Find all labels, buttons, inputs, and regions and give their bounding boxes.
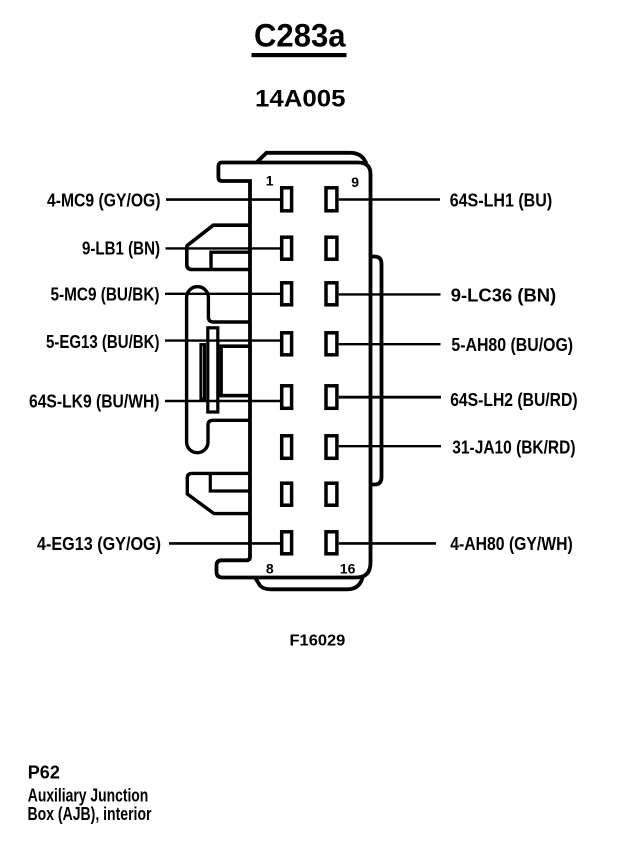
svg-text:1: 1 <box>266 173 274 189</box>
pin 12 <box>326 333 337 355</box>
pin 7 <box>282 483 292 505</box>
large latch rectangle <box>221 346 250 395</box>
svg-text:9-LC36 (BN): 9-LC36 (BN) <box>451 285 556 305</box>
wire 5-EG13 to pin 4 <box>165 339 280 341</box>
svg-text:16: 16 <box>340 561 356 577</box>
svg-text:64S-LK9 (BU/WH): 64S-LK9 (BU/WH) <box>29 392 160 412</box>
lower left latch <box>187 473 250 513</box>
svg-text:4-AH80 (GY/WH): 4-AH80 (GY/WH) <box>450 534 573 554</box>
svg-text:64S-LH2 (BU/RD): 64S-LH2 (BU/RD) <box>450 390 577 410</box>
lower left latch inner notch <box>210 473 250 491</box>
svg-text:9-LB1 (BN): 9-LB1 (BN) <box>82 239 160 259</box>
svg-text:14A005: 14A005 <box>255 85 346 112</box>
wire 4-AH80 from pin 16 <box>339 542 436 545</box>
right side tab <box>371 257 382 485</box>
pin 14 <box>326 436 337 459</box>
wire 64S-LK9 to pin 5 <box>165 400 280 403</box>
wire 5-MC9 to pin 3 <box>165 293 280 295</box>
svg-text:8: 8 <box>266 561 274 577</box>
pin 16 <box>326 532 337 554</box>
upper left latch inner notch <box>211 252 250 269</box>
pin 6 <box>282 436 292 459</box>
wire 4-MC9 to pin 1 <box>166 198 280 201</box>
connector body outline <box>217 163 371 578</box>
pin 1 <box>282 188 292 211</box>
wire 64S-LH2 from pin 13 <box>339 396 441 399</box>
wire 31-JA10 from pin 14 <box>339 445 441 447</box>
svg-text:4-MC9 (GY/OG): 4-MC9 (GY/OG) <box>47 190 161 210</box>
top hump of connector <box>257 153 367 164</box>
svg-text:Box (AJB), interior: Box (AJB), interior <box>28 804 152 824</box>
svg-text:31-JA10 (BK/RD): 31-JA10 (BK/RD) <box>452 438 575 458</box>
pin 11 <box>326 283 337 305</box>
wire 9-LC36 from pin 11 <box>339 293 441 295</box>
bottom hump of connector <box>255 578 363 590</box>
svg-text:P62: P62 <box>28 763 60 783</box>
pin 8 <box>282 532 292 554</box>
pin 2 <box>282 237 292 259</box>
svg-text:C283a: C283a <box>254 17 346 53</box>
svg-text:F16029: F16029 <box>290 632 346 649</box>
pin 4 <box>282 333 292 355</box>
svg-text:5-EG13 (BU/BK): 5-EG13 (BU/BK) <box>46 332 160 352</box>
wire 4-EG13 to pin 8 <box>169 542 280 545</box>
left small bar <box>201 345 205 399</box>
pin 13 <box>326 386 337 409</box>
svg-text:5-AH80 (BU/OG): 5-AH80 (BU/OG) <box>451 335 573 355</box>
wire 9-LB1 to pin 2 <box>166 247 281 249</box>
svg-text:4-EG13 (GY/OG): 4-EG13 (GY/OG) <box>37 534 161 554</box>
left hook channel <box>187 287 250 453</box>
pin 10 <box>326 237 337 259</box>
svg-text:Auxiliary Junction: Auxiliary Junction <box>28 785 149 805</box>
wire 64S-LH1 from pin 9 <box>339 198 440 200</box>
pin 5 <box>282 386 292 409</box>
pin 3 <box>282 283 292 305</box>
wire 5-AH80 from pin 12 <box>339 343 441 345</box>
pin 9 <box>326 188 337 211</box>
svg-text:9: 9 <box>351 174 359 190</box>
svg-text:64S-LH1 (BU): 64S-LH1 (BU) <box>450 191 553 211</box>
narrow vertical bar <box>208 328 218 412</box>
pin 15 <box>326 483 337 505</box>
svg-text:5-MC9 (BU/BK): 5-MC9 (BU/BK) <box>51 284 160 304</box>
upper left latch <box>187 225 250 269</box>
title underline <box>252 53 347 57</box>
